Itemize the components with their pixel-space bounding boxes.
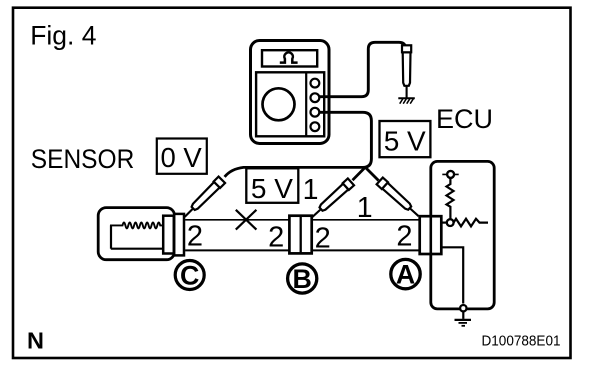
svg-text:SENSOR: SENSOR (31, 144, 135, 174)
svg-text:C: C (180, 260, 199, 290)
probe P3 at connector B (309, 178, 354, 220)
circled C (175, 260, 204, 290)
wire meter terminal3 down to junction (320, 112, 372, 167)
ECU box (431, 161, 494, 309)
svg-text:B: B (293, 264, 312, 294)
ECU supply terminal tick (442, 173, 458, 175)
connector C left half (163, 216, 174, 254)
wire junction to left probe (225, 167, 364, 177)
svg-text:Fig. 4: Fig. 4 (30, 20, 96, 50)
multimeter display (262, 50, 317, 66)
5V box right (380, 121, 431, 157)
0V box (157, 139, 207, 174)
svg-text:5 V: 5 V (384, 126, 426, 157)
ground symbol ECU (455, 311, 472, 325)
harness wire 2 segment B-A (312, 249, 420, 251)
svg-text:2: 2 (396, 221, 412, 253)
resistor R1 vertical zigzag (447, 178, 454, 220)
5V box middle (246, 168, 298, 203)
harness wire 2 segment C-B (185, 249, 289, 251)
svg-text:5 V: 5 V (251, 173, 293, 204)
svg-text:A: A (396, 260, 415, 290)
connector C right half (174, 214, 184, 256)
ground hatch under probe P1 (398, 98, 415, 104)
connector A (420, 216, 442, 254)
node circle (447, 219, 454, 226)
probe P4 at connector A (377, 178, 422, 220)
wire junction to probe P3 (353, 168, 366, 181)
svg-text:ECU: ECU (436, 104, 493, 134)
svg-text:1: 1 (357, 192, 373, 224)
ground node circle (460, 305, 466, 311)
terminal 3 (311, 108, 320, 117)
connector B divider (300, 216, 302, 254)
sensor element coil top (110, 222, 165, 228)
harness wire 1 segment B-A (312, 219, 420, 221)
harness wire 1 segment C-B (185, 219, 289, 221)
terminal 2 (311, 93, 320, 102)
sensor element wire left (110, 225, 112, 248)
svg-text:2: 2 (187, 221, 203, 253)
connector B (289, 216, 311, 254)
sensor box (98, 208, 174, 260)
svg-text:1: 1 (303, 174, 319, 206)
svg-text:2: 2 (268, 221, 284, 253)
probe P1 vertical (402, 45, 411, 98)
wire meter terminal2 to top probe (320, 42, 406, 96)
svg-text:D100788E01: D100788E01 (482, 334, 561, 350)
svg-text:0 V: 0 V (161, 142, 203, 173)
probe P2 at connector C (181, 177, 225, 221)
multimeter body (251, 41, 330, 144)
dial (263, 88, 295, 120)
break X mark (236, 210, 257, 230)
wire connector A pin2 to ground node (441, 247, 463, 303)
circled A (391, 259, 420, 289)
sensor element wire bottom (111, 248, 164, 250)
svg-text:N: N (27, 328, 44, 354)
panel divider (305, 72, 307, 136)
resistor R2 horizontal zigzag (454, 219, 488, 227)
svg-text:2: 2 (315, 223, 331, 255)
ECU supply terminal circle (447, 171, 454, 178)
terminal 4 (311, 122, 320, 131)
ohm symbol (280, 52, 298, 62)
connector A divider (ECU edge) (429, 216, 432, 254)
multimeter panel (256, 72, 324, 136)
circled B (288, 264, 317, 294)
terminal 1 (311, 79, 320, 88)
wire connector A to node (441, 222, 447, 224)
wire junction to probe P4 (366, 168, 379, 181)
